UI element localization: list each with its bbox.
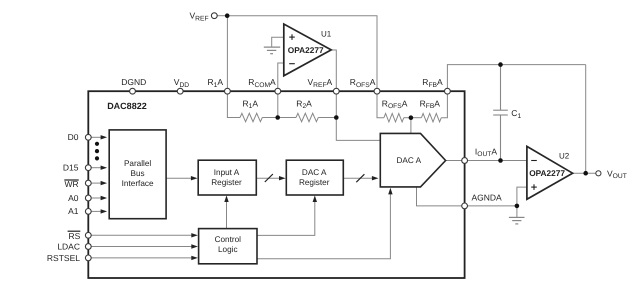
DAC8822 box <box>88 91 464 278</box>
terminal V_REF <box>190 11 218 23</box>
svg-text:D0: D0 <box>68 132 79 142</box>
svg-text:DAC A: DAC A <box>397 156 422 165</box>
wire U1 - input to R_COMA pin <box>278 63 284 88</box>
pin D15 <box>63 163 91 173</box>
wire D15 to Parallel Bus Interface <box>91 166 107 170</box>
wire Input A Register to DAC A Register <box>256 176 285 180</box>
svg-text:Bus: Bus <box>131 169 145 178</box>
svg-text:OPA2277: OPA2277 <box>288 45 324 55</box>
svg-text:LDAC: LDAC <box>57 241 80 251</box>
wire I_OUTA pin to U2 - input <box>468 160 527 162</box>
wire A1 to Parallel Bus Interface <box>91 209 107 213</box>
svg-text:Register: Register <box>211 178 242 187</box>
junction AGNDA ground <box>515 204 520 209</box>
Control Logic block <box>199 229 257 264</box>
svg-text:DAC8822: DAC8822 <box>107 101 147 111</box>
svg-text:A1: A1 <box>68 206 79 216</box>
bus slash 2 <box>356 174 364 182</box>
wire DAC A Register to DAC A <box>343 176 378 180</box>
svg-text:U2: U2 <box>559 152 570 161</box>
junction top rail / C1 <box>498 62 503 67</box>
pin D0 <box>68 132 92 142</box>
pin RSTSEL <box>47 253 91 263</box>
ground (U2 + input / AGNDA) <box>509 206 525 224</box>
wire V_REF junction down to R_1A pin <box>226 16 228 89</box>
junction ROFSA/RFBA node <box>409 115 414 120</box>
wire D0 to Parallel Bus Interface <box>91 135 107 139</box>
wire DAC A bottom to AGNDA pin <box>417 187 462 206</box>
wire V_REF to top rail junction <box>217 15 227 17</box>
Input A Register block <box>198 160 256 195</box>
wire U1 + input to ground <box>272 37 284 47</box>
resistor R_FBA (internal) <box>411 94 448 122</box>
svg-text:DGND: DGND <box>121 77 146 87</box>
pin LDAC <box>57 241 91 251</box>
svg-text:Register: Register <box>299 178 330 187</box>
wire DAC A apex to I_OUTA pin <box>446 160 462 162</box>
wire LDAC to Control Logic <box>91 244 198 248</box>
wire R_FBA pin up to top-right rail <box>447 65 585 89</box>
junction R1A/R2A node <box>275 115 280 120</box>
wire V_REFA pin down to R2A junction <box>335 94 337 117</box>
pin A1 <box>68 206 91 216</box>
junction U2 output <box>583 171 588 176</box>
pin A0 <box>68 193 91 203</box>
wire V_REFA junction to DAC A left edge <box>336 118 381 141</box>
svg-text:Logic: Logic <box>218 245 238 254</box>
DAC A Register block <box>286 160 343 195</box>
resistor R_OFSA (internal) <box>377 94 411 122</box>
pin V_REFA <box>308 77 340 94</box>
wire Control Logic up to Input A Register <box>224 195 228 228</box>
wire U2 + input to ground junction <box>517 187 527 206</box>
svg-text:RS: RS <box>68 231 80 241</box>
terminal V_OUT <box>596 168 627 180</box>
svg-text:OPA2277: OPA2277 <box>529 168 565 178</box>
wire A0 to Parallel Bus Interface <box>91 196 107 200</box>
DAC A block <box>380 133 445 187</box>
wire RS to Control Logic <box>91 233 198 237</box>
pin R_OFSA <box>350 77 380 94</box>
pin R_COMA <box>248 77 280 94</box>
junction V_REF rail <box>225 13 230 18</box>
wire AGNDA pin to ground junction <box>468 205 517 207</box>
wire top rail to R_OFSA pin <box>227 16 377 89</box>
svg-text:AGNDA: AGNDA <box>472 193 503 203</box>
bus slash 1 <box>265 174 273 182</box>
wire Parallel Bus Interface to Input A Register <box>166 176 197 180</box>
capacitor C1 <box>493 65 508 161</box>
wire feedback down to U2 output <box>585 65 587 174</box>
pin V_DD <box>174 77 190 94</box>
wire U1 output to V_REFA pin <box>331 50 336 88</box>
junction C1 / I_OUT row <box>498 158 503 163</box>
wire R_COMA pin down to junction <box>277 94 279 117</box>
wire Control Logic to DAC A <box>257 188 393 259</box>
pin AGNDA <box>462 193 502 209</box>
pin R_FBA <box>422 77 450 94</box>
wire resistor junction down to DAC A top <box>410 118 412 134</box>
svg-text:Control: Control <box>215 235 242 244</box>
ground (U1 + input) <box>264 47 280 54</box>
pin WR (active low) <box>64 179 91 189</box>
svg-text:DAC A: DAC A <box>302 168 327 177</box>
junction R2A/VREFA node <box>334 115 339 120</box>
ellipsis dots D0..D15 <box>95 142 99 161</box>
resistor R2A <box>278 113 337 121</box>
op-amp U1 <box>284 24 332 76</box>
pin I_OUTA <box>462 146 498 163</box>
wire Control Logic to DAC A Register <box>257 195 317 235</box>
resistor R1A <box>227 94 277 122</box>
svg-text:A0: A0 <box>68 193 79 203</box>
wire WR to Parallel Bus Interface <box>91 181 107 185</box>
svg-text:RSTSEL: RSTSEL <box>47 253 80 263</box>
svg-text:U1: U1 <box>321 29 332 38</box>
Parallel Bus Interface block <box>109 130 166 219</box>
pin DGND <box>121 77 146 94</box>
wire RSTSEL to Control Logic <box>91 256 198 260</box>
svg-text:Input A: Input A <box>214 168 240 177</box>
pin RS (active low) <box>68 231 92 241</box>
svg-text:Parallel: Parallel <box>124 159 151 168</box>
svg-text:Interface: Interface <box>122 179 154 188</box>
wire U2 output to V_OUT <box>573 172 596 174</box>
pin R_1A <box>208 77 231 94</box>
op-amp U2 <box>527 146 573 199</box>
svg-text:D15: D15 <box>63 163 79 173</box>
